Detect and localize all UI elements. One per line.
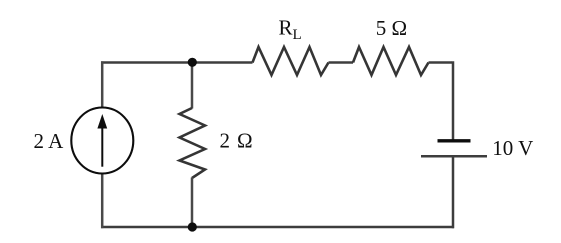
resistor 2ohm zigzag (vertical) — [180, 108, 206, 178]
current source arrowhead — [97, 114, 107, 129]
svg-text:2 Ω: 2 Ω — [220, 129, 254, 153]
battery V1 top plate (short thick) — [438, 139, 471, 142]
wire top-right horizontal — [429, 61, 453, 64]
wire between RL and 5ohm — [329, 61, 354, 64]
wire right vertical upper — [452, 61, 455, 140]
svg-text:10 V: 10 V — [492, 136, 533, 160]
wire bottom horizontal — [101, 226, 454, 229]
node junction dot bottom — [188, 222, 197, 231]
resistor RL zigzag — [253, 47, 329, 75]
wire middle vertical upper — [191, 61, 194, 108]
wire middle vertical lower — [191, 178, 194, 229]
wire top-left horizontal — [101, 61, 253, 64]
wire left vertical lower — [101, 173, 104, 228]
node junction dot top — [188, 58, 197, 67]
resistor 5ohm zigzag — [353, 47, 429, 75]
wire right vertical lower — [452, 156, 455, 228]
current source I1 circle — [71, 108, 133, 174]
battery V1 bottom plate (long thin) — [421, 155, 487, 158]
svg-text:2 A: 2 A — [34, 129, 65, 153]
wire left vertical upper — [101, 61, 104, 109]
svg-text:5 Ω: 5 Ω — [376, 16, 407, 40]
current source arrow shaft — [101, 126, 103, 167]
svg-text:RL: RL — [279, 16, 302, 44]
